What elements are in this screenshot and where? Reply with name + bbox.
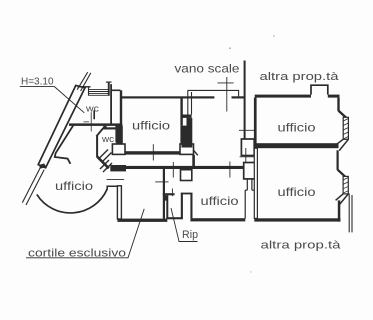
svg-text:ufficio: ufficio	[278, 185, 316, 199]
dim tick: cortile left	[107, 179, 125, 181]
wall: facade thin tail bottom	[22, 167, 44, 205]
svg-text:ufficio: ufficio	[201, 194, 239, 208]
wall: wc1 door jamb	[93, 110, 95, 119]
svg-text:altra prop.tà: altra prop.tà	[260, 71, 340, 83]
wall: jog to window 1	[338, 111, 346, 118]
pillar: wc2 right	[115, 125, 120, 142]
room wc1: top outer line	[78, 86, 91, 88]
svg-text:ufficio: ufficio	[132, 119, 170, 133]
wall: wc2 left	[96, 136, 98, 157]
window W1: ladder of wc1	[89, 90, 110, 96]
wall: wc1 right	[110, 84, 112, 125]
dim tick: below wc1	[84, 112, 92, 131]
room wc2: top wall	[103, 127, 116, 129]
door box D1: central stack upper	[241, 139, 254, 156]
wall: right inner between windows	[337, 150, 339, 170]
wall: cortile bottom	[117, 219, 167, 222]
wall: outer right double	[349, 194, 352, 233]
wall: big room left	[120, 90, 122, 125]
wall: step down wc1 to wc2	[103, 126, 106, 129]
wall: lintel left of bottom-middle room	[181, 193, 193, 195]
svg-text:ufficio: ufficio	[55, 179, 93, 193]
room big top-middle: top wall	[120, 96, 214, 98]
wall: cortile right	[163, 167, 165, 219]
svg-text:H=3.10: H=3.10	[21, 75, 54, 87]
dim tick: central y157	[240, 148, 257, 163]
wall: notch at arc right end	[107, 186, 117, 189]
window W3: hatched band right lower	[343, 176, 348, 194]
wall: wc2 chamfer upper	[96, 128, 103, 136]
wall: vano scale right	[244, 61, 246, 140]
window W1: right bar T-mark	[108, 82, 110, 95]
wall: top-right notch	[311, 85, 328, 94]
underline: Rip	[179, 241, 198, 243]
svg-text:wc: wc	[85, 104, 100, 114]
wall: splay wedge lower	[336, 194, 349, 205]
pillar box: corridor top-left	[112, 144, 125, 154]
leader: H=3.10	[20, 87, 85, 113]
wall: big room bottom	[124, 151, 183, 154]
pillar: vano scale left foot	[181, 115, 192, 118]
dim tick: corridor x173	[172, 162, 174, 178]
pillar box: below corridor	[181, 170, 192, 181]
dim tick: central y130	[239, 129, 256, 131]
dim tick: Rip top	[171, 189, 173, 197]
room bottom-middle: left wall	[190, 193, 192, 218]
wall: facade thin extension top	[77, 72, 91, 91]
wall: left room stepped boundary	[55, 124, 74, 164]
wall: diagonal facade band	[38, 85, 85, 167]
dim tick: cortile right wall horizontal	[155, 181, 168, 183]
underline+leader: cortile esclusivo	[26, 209, 144, 258]
pillar: Rip top-left	[164, 195, 168, 200]
wall: connector wc1 to big room	[112, 89, 121, 91]
svg-text:vano scale: vano scale	[175, 62, 240, 76]
wall: cortile left	[117, 186, 121, 219]
svg-text:wc: wc	[101, 134, 115, 144]
svg-text:ufficio: ufficio	[278, 120, 316, 134]
window W2: hatched band right upper	[343, 117, 348, 139]
wall: curved courtyard arc	[37, 189, 107, 213]
wall: jog to window 2	[338, 170, 346, 177]
wall: Rip right	[181, 193, 183, 219]
window ticks: diagonal pair B	[100, 160, 112, 172]
wall: bottom-right room right inner	[338, 200, 341, 221]
pillar: corridor lower-left	[110, 165, 126, 171]
wall: bottom-middle bottom	[190, 218, 245, 221]
pillar: big room bottom-left	[116, 126, 123, 145]
wall: Rip left	[166, 195, 168, 218]
svg-text:cortile esclusivo: cortile esclusivo	[28, 247, 126, 259]
room bottom-right: left wall	[254, 148, 257, 218]
door box D2: central stack lower	[244, 163, 256, 179]
pillar box: corridor top-right	[180, 144, 194, 154]
room Rip: top wall	[163, 193, 175, 195]
dim line: vano scale	[218, 77, 234, 112]
wall: wc2 chamfer lower	[97, 157, 109, 169]
wall: bottom-right bottom	[254, 218, 340, 221]
wall: heavy middle	[253, 143, 339, 148]
wall: wc1 bottom	[69, 123, 122, 126]
wall: Rip bottom	[166, 217, 183, 219]
wall: vano scale left	[187, 90, 189, 118]
wall: big room right	[180, 98, 182, 126]
wall: central cavity lower	[244, 190, 246, 218]
vano scale: outer thin line	[188, 90, 239, 97]
leader: Rip	[171, 208, 179, 241]
wall: splay wedge upper	[334, 139, 349, 150]
room top-right: top wall	[255, 95, 311, 98]
svg-text:Rip: Rip	[182, 229, 198, 241]
svg-text:altra prop.tà: altra prop.tà	[261, 240, 342, 252]
dim tick: corridor x230	[229, 162, 231, 178]
wall: stub right end of corridor	[192, 155, 195, 167]
pillar: big room bottom-right	[180, 126, 188, 145]
wall: top-right room right upper	[337, 98, 339, 111]
wall: top-right room left	[254, 98, 257, 144]
wall: corridor lower	[111, 166, 244, 169]
wall: central neck	[247, 179, 252, 190]
window ticks: diagonal pair A	[99, 150, 112, 162]
speck dots	[229, 47, 231, 49]
dim tick: big room bottom wall	[152, 144, 154, 160]
